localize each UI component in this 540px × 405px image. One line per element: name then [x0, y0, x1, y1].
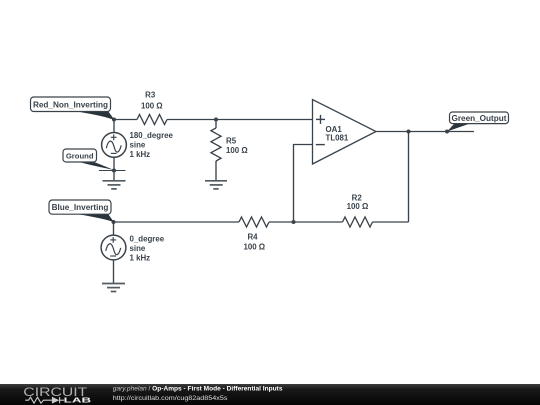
wire ground node to ground: [113, 171, 115, 181]
svg-text:R4: R4: [247, 232, 258, 241]
svg-text:R5: R5: [226, 137, 237, 146]
svg-text:100 Ω: 100 Ω: [347, 202, 369, 211]
wire R3 to R5 node: [167, 119, 216, 121]
wire R4 to node C: [269, 221, 294, 223]
wire R5 to ground: [215, 161, 217, 181]
junction node ground label anchor: [112, 169, 116, 173]
resistor R5 labels: [226, 137, 248, 156]
resistor R3: [137, 115, 167, 125]
op-amp OA1 name labels: [326, 125, 349, 142]
wire red node to R3: [114, 119, 137, 121]
ground (V1): [103, 181, 126, 189]
resistor R2: [343, 217, 373, 227]
svg-text:sine: sine: [130, 140, 146, 149]
op-amp OA1: [313, 100, 377, 165]
svg-text:100 Ω: 100 Ω: [226, 146, 248, 155]
wire op-amp inverting input: [294, 145, 313, 223]
resistor R5: [211, 128, 221, 161]
svg-text:Green_Output: Green_Output: [451, 114, 506, 123]
source V2 value labels: [130, 234, 165, 262]
svg-text:gary.phelan / Op-Amps - First: gary.phelan / Op-Amps - First Mode - Dif…: [113, 385, 283, 392]
wire blue node to R4: [114, 221, 240, 223]
flag Green_Output: [447, 112, 509, 132]
source V1 value labels: [130, 131, 174, 159]
wire V1 to ground node: [113, 157, 115, 170]
svg-text:Ground: Ground: [66, 151, 94, 160]
flag Red_Non_Inverting: [31, 97, 115, 120]
junction node blue: [112, 220, 116, 224]
voltage source V1 (180_degree sine): [102, 133, 127, 158]
junction node output: [407, 130, 411, 134]
resistor R2 labels: [347, 193, 369, 211]
flag Blue_Inverting: [49, 200, 114, 222]
wire R5 node down: [215, 120, 217, 129]
ground (R5): [205, 181, 227, 189]
wire R5 node to op-amp + input: [216, 119, 313, 121]
junction node R5 top: [214, 118, 218, 122]
svg-text:0_degree: 0_degree: [130, 234, 165, 243]
svg-text:TL081: TL081: [326, 133, 349, 142]
svg-text:http://circuitlab.com/cug82ad8: http://circuitlab.com/cug82ad854x5s: [113, 395, 228, 402]
svg-text:100 Ω: 100 Ω: [243, 243, 265, 252]
CircuitLab logo: [23, 385, 92, 405]
wire feedback right segment: [373, 221, 409, 223]
wire V2 to ground: [113, 260, 115, 283]
wire R2 to node C: [294, 221, 343, 223]
wire red node down to source V1: [113, 120, 115, 133]
svg-text:180_degree: 180_degree: [130, 131, 174, 140]
junction node C: [292, 220, 296, 224]
svg-text:R2: R2: [352, 193, 363, 202]
svg-text:R3: R3: [145, 90, 156, 99]
flag Ground: [63, 149, 114, 170]
wire output: [376, 131, 474, 133]
resistor R4: [239, 217, 269, 227]
footer title text: [113, 385, 283, 401]
wire blue node down to source V2: [113, 222, 115, 235]
wire ground node stub: [99, 170, 126, 172]
resistor R4 labels: [243, 232, 265, 251]
svg-text:1 kHz: 1 kHz: [130, 253, 151, 262]
junction node red: [112, 118, 116, 122]
junction node green anchor: [445, 130, 449, 134]
footer bar: [0, 384, 540, 405]
resistor R3 labels: [141, 90, 163, 110]
voltage source V2 (0_degree sine): [101, 235, 126, 260]
svg-text:sine: sine: [130, 244, 146, 253]
wire output node down to feedback: [408, 132, 410, 223]
svg-text:LAB: LAB: [64, 396, 92, 405]
svg-text:100 Ω: 100 Ω: [141, 101, 163, 110]
svg-text:1 kHz: 1 kHz: [130, 150, 151, 159]
svg-text:Blue_Inverting: Blue_Inverting: [52, 203, 109, 212]
ground (V2): [102, 284, 125, 292]
svg-text:Red_Non_Inverting: Red_Non_Inverting: [33, 100, 108, 109]
